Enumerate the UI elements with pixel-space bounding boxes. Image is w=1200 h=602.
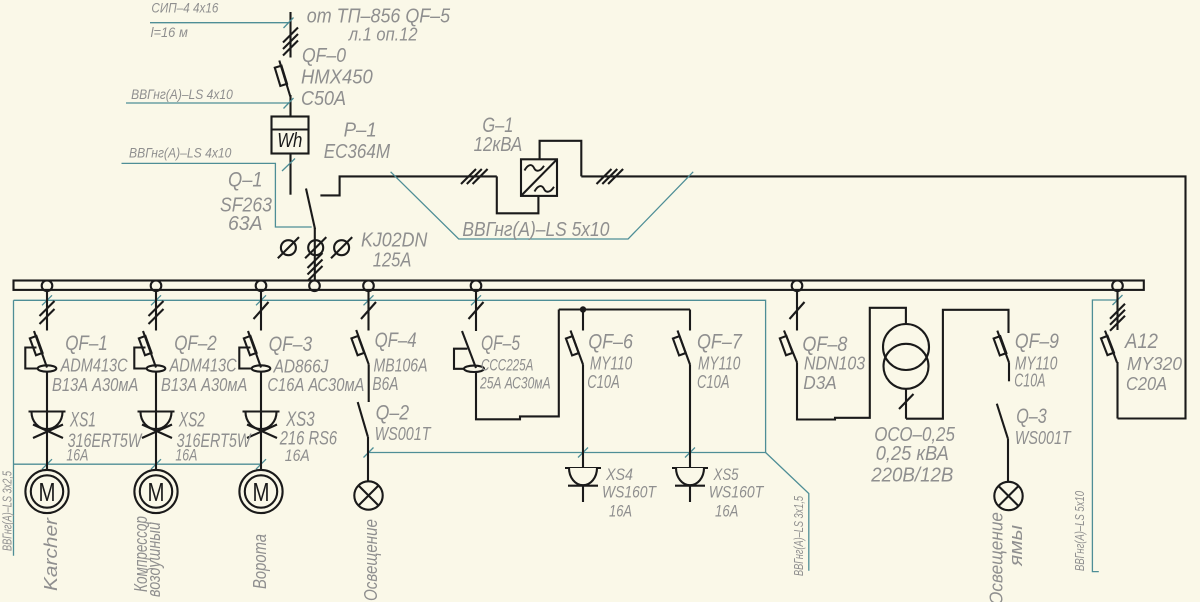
svg-text:воздушный: воздушный	[144, 522, 164, 597]
label motor names (vertical)	[41, 512, 1026, 602]
svg-text:D3А: D3А	[803, 373, 837, 393]
leader arrow ticks motor row	[42, 459, 266, 469]
svg-text:В6А: В6А	[372, 374, 398, 394]
svg-text:ВВГнг(А)–LS 4х10: ВВГнг(А)–LS 4х10	[131, 87, 233, 102]
breaker QF-8 blade	[784, 331, 797, 363]
svg-text:ямы: ямы	[1006, 525, 1026, 567]
wire: loop into converter G-1 bottom	[497, 176, 539, 213]
wire: incoming supply drop	[289, 12, 291, 58]
svg-text:л.1 оп.12: л.1 оп.12	[348, 25, 418, 45]
svg-text:QF–6: QF–6	[588, 331, 633, 354]
RCBO QF-1 blade	[34, 331, 47, 368]
wire: QF-3 branch drop	[260, 289, 262, 331]
RCBO QF-3 differential toroid	[252, 365, 271, 371]
leader line for СИП-4 cable label	[150, 22, 289, 24]
cable slash marks above busbar on main feed	[308, 253, 323, 281]
wire: QF-0 to meter	[289, 95, 291, 117]
transformer T1 OCO-0,25	[883, 324, 929, 370]
leader bracket for A12 cable	[1092, 300, 1118, 572]
svg-text:Освещение: Освещение	[361, 519, 381, 601]
cable slash mark QF-4 (single)	[361, 302, 376, 319]
svg-text:QF–9: QF–9	[1015, 330, 1059, 353]
switch Q-3 blade	[997, 404, 1008, 439]
RCBO QF-2 trip linkage	[134, 348, 146, 369]
breaker QF-4 release rectangle	[351, 336, 364, 355]
wire: Q-3 to lamp	[1007, 438, 1009, 481]
wire: tap to generator branch	[320, 176, 496, 195]
breaker QF-7 release rectangle	[673, 336, 686, 355]
breaker A12 blade	[1105, 331, 1117, 363]
breaker QF-0 release rectangle	[275, 66, 287, 86]
svg-text:XS2: XS2	[178, 408, 205, 431]
wire: meter to Q-1	[289, 154, 291, 195]
svg-text:ВВГнг(А)–LS 5х10: ВВГнг(А)–LS 5х10	[462, 219, 609, 241]
svg-text:25А АС30мА: 25А АС30мА	[479, 374, 550, 393]
breaker QF-0 blade	[279, 61, 290, 97]
wire: QF-2 branch drop	[155, 289, 157, 331]
wire: QF-3 to socket and motor	[260, 372, 262, 471]
svg-text:QF–0: QF–0	[302, 45, 346, 67]
breaker A12 release rectangle	[1101, 336, 1114, 355]
svg-text:ВВГнг(А)–LS 5х10: ВВГнг(А)–LS 5х10	[1073, 491, 1087, 571]
leader line for ВВГнг(А)-LS 4х10 label (upper)	[126, 102, 289, 104]
phase symbols (3x circle-slash)	[278, 237, 352, 258]
breaker QF-6 blade	[571, 331, 584, 365]
wire: Q-2 to lamp	[367, 437, 369, 482]
svg-text:М: М	[253, 477, 270, 507]
breaker QF-6 release rectangle	[566, 336, 579, 355]
wire: generator run to right side	[581, 176, 1185, 418]
RCBO QF-2 differential toroid	[147, 365, 166, 371]
svg-text:HMX450: HMX450	[301, 66, 373, 88]
meter P-1 box (Wh)	[272, 117, 309, 154]
svg-text:Р–1: Р–1	[344, 119, 377, 141]
cable slash mark QF-3 (single)	[254, 302, 269, 319]
leader line under motors group	[14, 463, 262, 465]
svg-text:16А: 16А	[609, 503, 632, 521]
wire: QF-6 drop	[582, 310, 584, 331]
wire: transformer secondary down	[905, 389, 907, 419]
RCBO QF-1 trip linkage	[25, 348, 37, 369]
wire: QF-5 branch drop	[475, 289, 477, 331]
converter G-1 box	[521, 159, 557, 196]
svg-text:0,25 кВА: 0,25 кВА	[876, 443, 949, 465]
RCBO QF-1 release rectangle	[30, 336, 43, 355]
wire: A12 output to generator line	[1116, 362, 1118, 419]
svg-text:KJ02DN: KJ02DN	[361, 229, 428, 251]
svg-text:С10А: С10А	[697, 372, 730, 392]
leader arrow ticks top row	[42, 295, 481, 305]
svg-text:ВВГнг(А)–LS 4х10: ВВГнг(А)–LS 4х10	[129, 146, 232, 161]
svg-text:MY320: MY320	[1127, 354, 1182, 374]
socket XS1	[29, 412, 66, 439]
svg-text:ЕС364М: ЕС364М	[324, 141, 391, 163]
socket XS2	[138, 412, 175, 439]
svg-text:С10А: С10А	[1014, 371, 1045, 391]
wire: QF-7 drop	[689, 310, 691, 331]
motor M (Компрессор)	[134, 470, 177, 513]
svg-text:16А: 16А	[175, 445, 197, 464]
svg-text:ВВГнг(А)–LS 3х2,5: ВВГнг(А)–LS 3х2,5	[1, 471, 15, 551]
wire: QF-7 to socket XS5	[689, 365, 691, 469]
wire: QF-5 output loop to sub-line	[476, 310, 559, 420]
node tap circles on busbar	[42, 281, 1123, 292]
wire: QF-9 to Q-3	[1008, 363, 1010, 382]
svg-text:ADM413C: ADM413C	[60, 355, 129, 375]
cable slash marks group 1 on generator run	[461, 169, 488, 184]
svg-text:Wh: Wh	[277, 130, 302, 152]
svg-text:WS001T: WS001T	[1015, 428, 1072, 448]
svg-text:М: М	[39, 477, 56, 507]
leader line for ВВГнг(А)-LS 4х10 label (lower)	[122, 163, 312, 227]
svg-text:В13А А30мА: В13А А30мА	[161, 375, 247, 395]
svg-text:MY110: MY110	[698, 353, 740, 373]
svg-text:WS160T: WS160T	[602, 484, 658, 502]
leader box around QF-1..QF-7 groups	[14, 300, 766, 452]
svg-text:QF–1: QF–1	[65, 332, 108, 355]
leader arrow ticks sockets row	[364, 448, 696, 458]
cable slash marks QF-1 (double)	[40, 301, 55, 324]
wire: QF-1 to socket and motor	[46, 372, 48, 471]
switch Q-1 blade	[306, 189, 315, 230]
breaker QF-4 blade	[356, 330, 369, 364]
svg-text:QF–3: QF–3	[269, 333, 313, 356]
svg-text:С20А: С20А	[1126, 374, 1167, 394]
svg-text:XS1: XS1	[69, 408, 96, 431]
svg-text:Q–3: Q–3	[1016, 405, 1047, 428]
breaker QF-9 release rectangle	[994, 336, 1007, 355]
svg-text:QF–5: QF–5	[481, 332, 520, 355]
motor M (Karcher)	[25, 470, 68, 513]
RCBO QF-3 trip linkage	[239, 348, 251, 369]
svg-text:XS4: XS4	[605, 466, 633, 484]
cable slash marks on incoming drop	[283, 28, 298, 56]
svg-text:16А: 16А	[285, 446, 310, 465]
RCBO QF-3 release rectangle	[244, 336, 257, 355]
svg-text:AD866J: AD866J	[273, 357, 330, 377]
busbar top edge over circles	[14, 279, 1144, 281]
leader flag for ВВГнг(А)-LS 5х10 cable label	[391, 172, 694, 239]
leader diagonal to ВВГнг(А)-LS 3х1,5 label	[766, 453, 809, 571]
wire: QF-2 to socket and motor	[155, 372, 157, 471]
lamp (Освещение ямы)	[994, 482, 1022, 510]
svg-text:MB106A: MB106A	[374, 356, 428, 376]
svg-text:ВВГнг(А)–LS 3х1,5: ВВГнг(А)–LS 3х1,5	[792, 496, 806, 576]
svg-text:12кВА: 12кВА	[474, 134, 523, 156]
label: incoming feed title	[220, 5, 609, 271]
svg-text:WS001T: WS001T	[375, 424, 433, 444]
svg-text:XS3: XS3	[285, 408, 315, 431]
svg-text:С10А: С10А	[587, 372, 620, 392]
wire: QF-6 to socket XS4	[582, 365, 584, 469]
svg-text:220В/12В: 220В/12В	[870, 465, 953, 487]
breaker QF-8 release rectangle	[780, 336, 793, 355]
wire: sub-line feeding QF-6 and QF-7	[559, 308, 690, 310]
RCBO QF-1 differential toroid	[38, 365, 57, 371]
wire: QF-1 branch drop	[46, 289, 48, 331]
cable slash marks group 2 on generator run	[597, 169, 624, 184]
wire: QF-4 branch drop	[367, 289, 369, 331]
svg-text:Ворота: Ворота	[250, 534, 270, 589]
lamp (Освещение)	[354, 481, 382, 509]
RCD QF-5 differential toroid	[464, 366, 484, 372]
svg-text:М: М	[148, 477, 165, 507]
svg-text:QF–2: QF–2	[174, 332, 217, 355]
svg-text:16А: 16А	[715, 503, 738, 521]
svg-text:ADM413C: ADM413C	[169, 355, 238, 375]
socket XS4	[565, 468, 601, 502]
node junction dot QF-6 tap	[580, 306, 586, 312]
svg-text:125А: 125А	[373, 249, 412, 271]
svg-text:Q–2: Q–2	[376, 401, 410, 424]
wire: A12 branch drop	[1116, 289, 1118, 330]
wire: converter G-1 top out	[540, 141, 582, 177]
svg-text:l=16 м: l=16 м	[151, 25, 188, 40]
svg-text:Освещение: Освещение	[987, 512, 1007, 602]
wire: secondary loop to QF-9	[906, 310, 1009, 419]
RCBO QF-2 blade	[143, 331, 156, 368]
cable slash marks QF-2 (double)	[149, 301, 164, 324]
breaker QF-9 blade	[997, 331, 1009, 363]
label vertical cable names	[1, 471, 1088, 576]
svg-text:63А: 63А	[228, 213, 263, 235]
cable slash mark on secondary	[899, 394, 914, 409]
label transformer OCO-0,25	[870, 424, 955, 487]
svg-text:WS160T: WS160T	[709, 484, 765, 502]
socket XS5	[672, 468, 708, 502]
RCD QF-5 blade	[462, 331, 476, 368]
label XS4	[602, 466, 765, 521]
wire: Q-1 to busbar	[314, 228, 316, 281]
svg-text:ССС225А: ССС225А	[481, 356, 533, 375]
wire: QF-8 to transformer primary	[797, 308, 906, 420]
svg-text:NDN103: NDN103	[804, 354, 865, 374]
breaker QF-7 blade	[678, 331, 691, 365]
svg-text:С16А АС30мА: С16А АС30мА	[267, 375, 364, 395]
socket XS3	[243, 412, 280, 439]
RCBO QF-3 blade	[248, 331, 261, 368]
svg-text:А12: А12	[1123, 330, 1158, 353]
wire: QF-8 branch drop	[796, 289, 798, 331]
svg-text:СИП–4 4х16: СИП–4 4х16	[151, 1, 218, 16]
svg-text:QF–4: QF–4	[375, 329, 417, 352]
svg-text:Karcher: Karcher	[41, 517, 61, 591]
svg-text:MY110: MY110	[590, 353, 632, 373]
wire: QF-4 to Q-2	[368, 364, 370, 402]
cable slash marks A12 (triple)	[1110, 304, 1125, 331]
RCD QF-5 trip linkage	[454, 349, 467, 369]
cable slash mark QF-8 (single)	[790, 302, 805, 319]
busbar	[14, 281, 1144, 290]
leader left side for ВВГнг(А)-LS 3х2,5 label	[13, 300, 15, 555]
cable slash mark QF-5 (single)	[469, 302, 484, 319]
svg-text:16А: 16А	[66, 445, 88, 464]
svg-text:С50А: С50А	[301, 88, 346, 110]
svg-text:QF–7: QF–7	[697, 331, 743, 354]
svg-text:Q–1: Q–1	[228, 169, 263, 192]
svg-text:В13А А30мА: В13А А30мА	[52, 375, 138, 395]
switch Q-2 blade	[358, 402, 368, 437]
svg-text:QF–8: QF–8	[802, 333, 847, 356]
label: cable leaders top-left	[129, 1, 233, 161]
svg-text:XS5: XS5	[713, 466, 739, 484]
RCBO QF-2 release rectangle	[139, 336, 152, 355]
motor M (Ворота)	[239, 470, 282, 513]
